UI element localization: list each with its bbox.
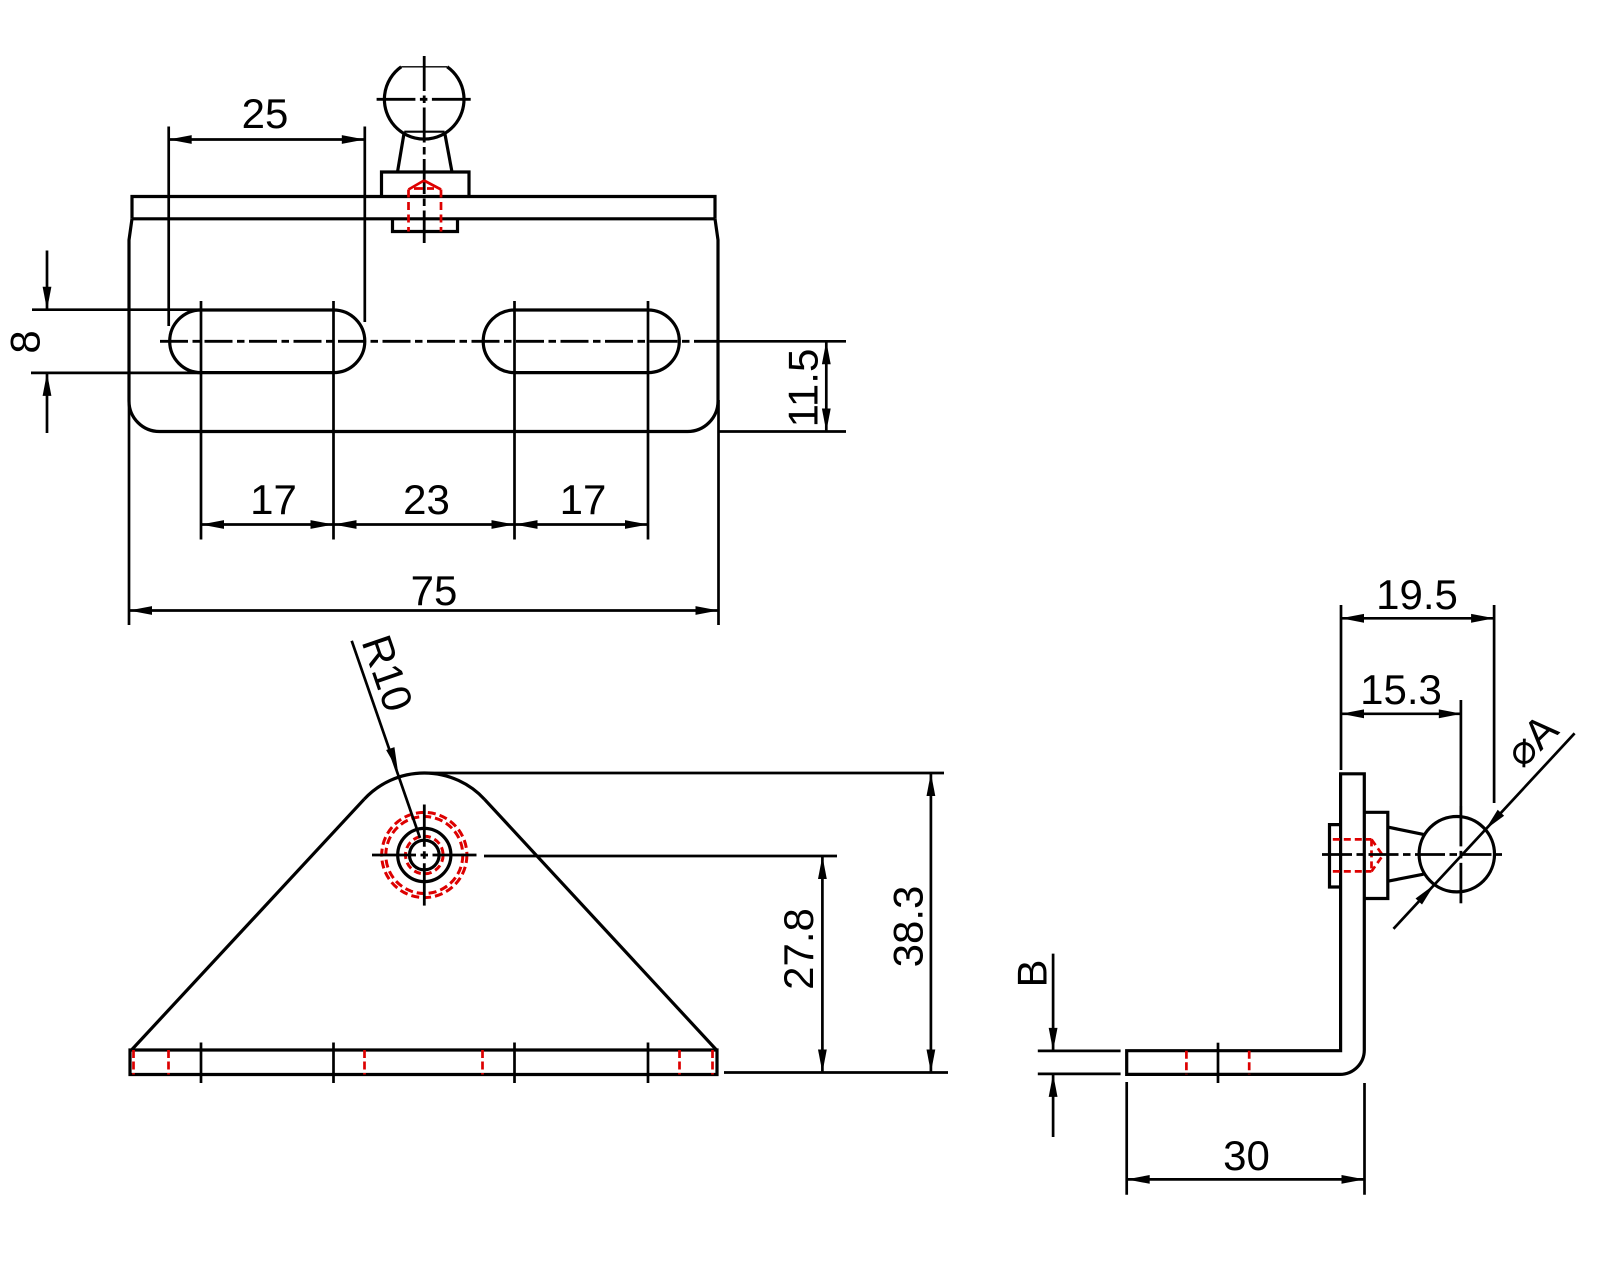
svg-text:17: 17 — [250, 476, 297, 523]
hole crosshair — [372, 854, 477, 857]
dimension 75 — [129, 400, 719, 625]
hole circles (front view) — [398, 828, 451, 881]
base strip outline — [130, 1050, 717, 1075]
slot centerline extension to 11.5 dim — [718, 340, 846, 343]
svg-text:75: 75 — [411, 567, 458, 614]
dimension 15.3 — [1341, 712, 1462, 715]
slot centerline (horizontal dash-dot) — [160, 340, 718, 343]
slot centre tick — [1217, 1043, 1220, 1083]
ball stud (top view) — [382, 67, 470, 232]
diameter A leader — [1394, 733, 1575, 929]
svg-text:23: 23 — [403, 476, 450, 523]
svg-text:B: B — [1009, 959, 1056, 987]
right slope — [485, 799, 717, 1050]
svg-text:25: 25 — [242, 90, 289, 137]
hidden slot edges on horizontal leg (red) — [1186, 1051, 1249, 1075]
neck taper — [1388, 827, 1424, 834]
hidden threaded stud (red, top view) — [409, 181, 442, 232]
neck taper left — [398, 132, 405, 172]
slot cap centre ticks on base strip — [201, 1043, 648, 1084]
svg-text:8: 8 — [2, 330, 49, 353]
stud vertical centerline — [423, 56, 426, 243]
nut under plate — [393, 219, 458, 232]
plate body outline with rounded bottom corners — [129, 219, 718, 432]
neck shoulder chord — [404, 131, 444, 133]
flange — [1364, 812, 1388, 898]
strip bottom line — [132, 217, 715, 220]
plate top strip (vertical leg seen from above) — [132, 197, 715, 219]
dimension B — [1038, 954, 1121, 1137]
dimension 11.5 — [718, 341, 846, 431]
ball circle with top flat — [384, 67, 464, 139]
ball crosshair horizontal centerline — [377, 98, 473, 101]
ball stud (side view) — [1330, 812, 1495, 898]
neck taper right — [445, 132, 453, 172]
hidden thread circles (red) — [382, 812, 467, 897]
svg-text:38.3: 38.3 — [885, 886, 932, 968]
left slope — [132, 799, 365, 1050]
dimension 30 — [1127, 1082, 1365, 1195]
dimension 17 23 17 — [201, 523, 648, 526]
nut — [1330, 825, 1341, 887]
left slot (obround) — [170, 310, 365, 373]
apex arc R10 — [364, 773, 484, 799]
L-bracket outline — [1127, 774, 1365, 1075]
slot cap vertical centerlines / extension lines for 17-23-17 — [201, 301, 648, 540]
hidden vertical-leg end lines on base strip (red) — [134, 1050, 713, 1075]
svg-text:17: 17 — [560, 476, 607, 523]
ball vertical centerline / 15.3 extension — [1460, 700, 1463, 806]
ball — [1419, 817, 1494, 892]
R10 leader — [352, 641, 420, 838]
hidden stud (red, side view) — [1333, 839, 1383, 871]
svg-text:19.5: 19.5 — [1376, 571, 1458, 618]
dimension 27.8 — [484, 856, 837, 1073]
dimension 19.5 — [1341, 605, 1494, 803]
dimension 8 — [31, 251, 200, 434]
right slot (obround) — [483, 310, 679, 373]
stud horizontal centerline — [1322, 853, 1502, 856]
dimension 25 — [169, 127, 365, 327]
svg-text:30: 30 — [1223, 1132, 1270, 1179]
stud flange — [382, 172, 470, 197]
svg-text:11.5: 11.5 — [780, 349, 827, 428]
dimension 38.3 — [424, 773, 948, 1073]
svg-text:27.8: 27.8 — [775, 908, 822, 990]
svg-text:15.3: 15.3 — [1360, 666, 1442, 713]
